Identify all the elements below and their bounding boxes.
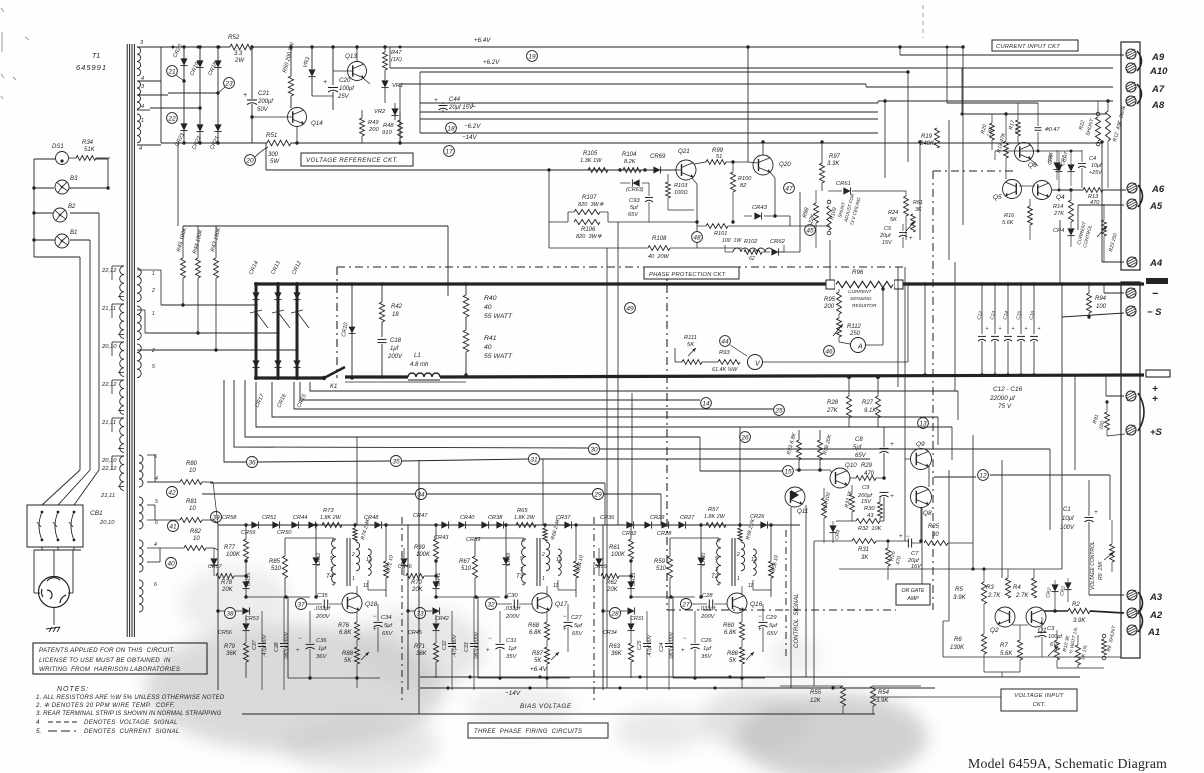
positive bus heavy wire left: [256, 376, 324, 379]
capacitor C18 1uf 200V: [378, 338, 387, 340]
svg-text:R28: R28: [827, 400, 839, 406]
svg-text:Q17: Q17: [555, 601, 568, 608]
svg-text:C5: C5: [884, 226, 892, 232]
svg-text:21,11: 21,11: [101, 420, 116, 426]
svg-text:+: +: [890, 441, 894, 448]
terminal minus: [1126, 288, 1136, 298]
SCR CR14: [252, 292, 259, 299]
svg-text:200V: 200V: [505, 614, 521, 620]
svg-text:R80: R80: [186, 461, 198, 467]
transformer T3 right winding 1: [546, 542, 550, 571]
svg-text:R27: R27: [862, 400, 874, 406]
svg-text:5: 5: [152, 364, 155, 370]
transistor Q8: [911, 487, 932, 508]
wire block T4 bottom: [288, 677, 380, 679]
svg-text:5: 5: [155, 499, 158, 505]
svg-text:21,11: 21,11: [100, 493, 115, 499]
wire plus terminal: [1102, 374, 1121, 377]
svg-text:27: 27: [681, 601, 690, 608]
wire 12 to voltage control: [934, 476, 976, 478]
svg-text:+: +: [1025, 326, 1028, 332]
svg-text:100: 100: [1096, 304, 1107, 310]
capacitor C30 .033uf 200V: [513, 600, 515, 609]
diode CR41 on vertical: [432, 581, 439, 588]
resistor R80 10: [180, 480, 202, 485]
svg-text:LICENSE TO USE MUST BE OBTAINE: LICENSE TO USE MUST BE OBTAINED IN: [39, 657, 171, 664]
resistor R106 820 3W: [574, 220, 600, 225]
svg-text:1. ALL RESISTORS ARE ½W 5% UNL: 1. ALL RESISTORS ARE ½W 5% UNLESS OTHERW…: [36, 694, 225, 701]
svg-text:CR69: CR69: [650, 154, 666, 160]
svg-text:AMP: AMP: [906, 596, 919, 602]
svg-text:36K: 36K: [611, 651, 623, 657]
svg-text:A10: A10: [1149, 66, 1168, 77]
svg-text:65V: 65V: [767, 631, 778, 637]
svg-text:35V: 35V: [506, 654, 517, 660]
svg-text:510: 510: [271, 566, 282, 572]
svg-text:34: 34: [417, 491, 425, 498]
svg-text:(CR63): (CR63): [626, 187, 644, 193]
transformer T2 right winding 1: [741, 542, 745, 571]
svg-text:+: +: [999, 326, 1002, 332]
node circle 28: [610, 608, 621, 619]
transistor Q9: [911, 449, 932, 470]
svg-text:CR49: CR49: [506, 553, 512, 566]
resistor R17 570: [1016, 120, 1021, 136]
wire to A2 terminal heavy: [1090, 611, 1124, 613]
svg-text:100Ω: 100Ω: [674, 190, 688, 196]
transistor Q6: [1015, 143, 1034, 162]
wire Q21 emitter down: [692, 178, 697, 184]
svg-text:15V: 15V: [861, 499, 872, 505]
transformer T2 right winding 2: [753, 549, 756, 575]
wire T1 top tap to rectifier: [137, 46, 161, 48]
svg-text:3.3K: 3.3K: [827, 161, 840, 167]
svg-text:4: 4: [332, 582, 335, 588]
strap arc A3-A2: [1138, 592, 1143, 614]
svg-text:R40: R40: [484, 295, 497, 302]
resistor R82 10: [184, 546, 206, 551]
svg-text:C8: C8: [855, 437, 863, 443]
wire current input verticals: [884, 101, 886, 178]
resistor R100 82: [731, 172, 736, 192]
svg-text:4: 4: [522, 582, 525, 588]
svg-text:510: 510: [656, 566, 667, 572]
transistor Q21: [676, 160, 696, 180]
svg-text:.47μf 80V: .47μf 80V: [647, 634, 653, 657]
svg-text:100K: 100K: [226, 552, 241, 558]
svg-text:R62: R62: [606, 580, 618, 586]
SCR CR17: [252, 360, 259, 367]
gate fan vertical 7: [300, 382, 700, 400]
svg-text:1: 1: [152, 311, 155, 317]
svg-text:10: 10: [193, 536, 200, 542]
svg-text:Q11: Q11: [797, 508, 808, 515]
terminal A2: [1127, 608, 1137, 618]
svg-text:300: 300: [268, 152, 279, 158]
wire bus right verticals: [1059, 220, 1061, 284]
wire Q6 emitter: [1030, 159, 1038, 166]
diode CR21: [214, 124, 221, 131]
wire mid verticals to control: [897, 267, 899, 387]
node 25 circle: [774, 405, 785, 416]
svg-text:82: 82: [740, 183, 747, 189]
vertical feed left rails: [419, 72, 421, 133]
svg-text:3.9K: 3.9K: [1073, 618, 1086, 624]
svg-text:42: 42: [168, 489, 176, 496]
svg-text:R71: R71: [414, 644, 425, 650]
svg-text:15: 15: [784, 468, 792, 475]
svg-text:CR32: CR32: [622, 531, 637, 537]
minus output bar: [1146, 278, 1168, 284]
svg-text:CR44: CR44: [293, 515, 307, 521]
svg-text:65V: 65V: [572, 631, 583, 637]
diode CR46: [400, 558, 407, 565]
svg-text:R70: R70: [411, 580, 423, 586]
wire current input top: [947, 102, 1038, 104]
svg-text:20K: 20K: [221, 587, 234, 593]
rail y103: [420, 102, 878, 104]
svg-text:A7: A7: [1151, 84, 1165, 95]
svg-text:C37: C37: [252, 639, 258, 650]
dashed vertical right: [932, 171, 934, 610]
svg-text:50V: 50V: [257, 107, 269, 113]
svg-text:+: +: [986, 326, 989, 332]
svg-text:R7: R7: [1000, 643, 1008, 649]
capacitor C33 .082uf: [470, 643, 478, 645]
svg-text:R54: R54: [878, 690, 890, 696]
diode CR53: [242, 607, 249, 614]
transformer T3 right winding 2: [558, 549, 561, 575]
svg-text:C31: C31: [506, 638, 517, 644]
wire big box top: [183, 225, 448, 227]
terminal A8: [1126, 96, 1136, 106]
svg-text:CKT.: CKT.: [1033, 702, 1046, 708]
resistor R94 100: [1088, 284, 1090, 293]
node 22 circle: [167, 113, 178, 124]
svg-text:200V: 200V: [700, 614, 716, 620]
rail bias voltage: [242, 713, 875, 715]
svg-text:645991: 645991: [76, 63, 107, 72]
svg-text:36K: 36K: [226, 651, 238, 657]
wire node to cap: [497, 603, 512, 605]
svg-text:22000 μf: 22000 μf: [989, 395, 1016, 402]
svg-text:− C: − C: [466, 102, 476, 109]
resistor R108 40 20W: [648, 246, 670, 251]
rail y119: [420, 118, 878, 120]
svg-text:61.4K ⅛W: 61.4K ⅛W: [712, 367, 738, 373]
svg-text:T2: T2: [711, 573, 719, 580]
wire block box left: [672, 537, 674, 539]
junction dots top rail: [172, 46, 175, 49]
node 45 circle: [805, 225, 816, 236]
svg-text:Q14: Q14: [311, 120, 323, 127]
svg-text:R87: R87: [532, 651, 544, 657]
svg-text:+: +: [899, 534, 903, 540]
svg-text:910: 910: [382, 130, 392, 136]
resistor R81 10: [180, 518, 202, 523]
svg-text:C30: C30: [507, 593, 518, 599]
diode CR31: [627, 607, 634, 614]
svg-text:51: 51: [716, 154, 722, 160]
svg-text:BIAS VOLTAGE: BIAS VOLTAGE: [520, 703, 572, 710]
svg-text:5K: 5K: [687, 342, 695, 348]
svg-text:NOTES:: NOTES:: [57, 686, 89, 693]
svg-text:R60: R60: [723, 623, 735, 629]
rail y87 to A7: [866, 86, 1113, 88]
svg-text:CR51: CR51: [262, 515, 276, 521]
dashed wire into or-gate: [667, 609, 896, 611]
SCR CR16: [274, 360, 281, 367]
svg-text:2: 2: [151, 348, 155, 354]
svg-text:5: 5: [330, 556, 333, 562]
svg-text:1μf: 1μf: [318, 646, 327, 652]
svg-text:18: 18: [447, 125, 455, 132]
node 35 circle: [391, 456, 402, 467]
diode CR1: [1064, 582, 1071, 589]
svg-text:20,10: 20,10: [101, 458, 117, 464]
node 49 circle: [625, 303, 636, 314]
svg-text:4: 4: [139, 146, 142, 152]
svg-text:CR30: CR30: [701, 553, 707, 566]
terminal A4: [1127, 257, 1137, 267]
transformer T1 secondary windings left side: [120, 266, 124, 300]
svg-text:+: +: [1152, 394, 1158, 405]
capacitor C31 1uf: [496, 643, 505, 645]
diode CR43: [458, 521, 465, 528]
wire Q20 emitter: [770, 172, 775, 178]
wire y470: [795, 469, 830, 471]
svg-text:35V: 35V: [701, 654, 712, 660]
wire or gate feeds: [839, 568, 1062, 570]
gate fan vertical 6: [294, 382, 773, 409]
wire cap bank feed: [924, 284, 926, 375]
svg-text:48: 48: [693, 234, 701, 241]
potentiometer R10 3K: [1055, 640, 1060, 660]
svg-text:Q8: Q8: [923, 510, 932, 517]
strap arc A6-A5: [1138, 185, 1143, 207]
capacitor C25 .47uf 80V: [643, 643, 651, 645]
svg-text:10: 10: [189, 506, 196, 512]
terminal A6: [1127, 183, 1137, 193]
capacitor C35 .033uf 200V: [323, 600, 325, 609]
svg-text:36K: 36K: [416, 651, 428, 657]
resistor R101 100 1W: [706, 224, 728, 229]
svg-text:240K: 240K: [919, 141, 935, 147]
svg-text:21,11: 21,11: [101, 306, 116, 312]
svg-text:C20: C20: [339, 77, 351, 84]
capacitor C15: [1020, 284, 1022, 334]
node 21 circle: [167, 66, 178, 77]
svg-text:CR40: CR40: [460, 515, 475, 521]
resistor R2 3.9K: [1068, 608, 1090, 613]
diode CR37: [564, 521, 571, 528]
svg-text:1.3K 1W: 1.3K 1W: [580, 158, 602, 164]
svg-text:20K: 20K: [411, 587, 424, 593]
terminal A1: [1127, 625, 1137, 635]
transformer T4 right winding 2: [368, 549, 371, 575]
wire Q20 collector to rail: [762, 142, 764, 155]
resistor R73 1.8K 2W: [322, 523, 342, 528]
strap arc A9-A10: [1137, 51, 1142, 71]
diode CR9: [829, 525, 836, 532]
svg-text:R61: R61: [913, 200, 923, 206]
capacitor C28 .033uf 200V: [708, 600, 710, 609]
svg-text:CR50: CR50: [277, 530, 292, 536]
circuit breaker CB1 box: [27, 505, 83, 547]
svg-text:R77: R77: [224, 545, 236, 551]
wire voltmeter to right: [763, 361, 908, 363]
svg-text:SENSING: SENSING: [850, 296, 872, 302]
svg-text:CR36: CR36: [600, 515, 615, 521]
wire right of lamps: [96, 158, 108, 160]
svg-text:+6.2V: +6.2V: [483, 59, 500, 66]
diode CR49: [502, 557, 509, 564]
svg-text:C38: C38: [274, 642, 280, 652]
svg-text:1: 1: [737, 576, 740, 582]
wire thin parallel under bus: [345, 381, 466, 383]
diode row CR59: [291, 521, 298, 528]
svg-text:R61: R61: [609, 545, 620, 551]
svg-text:R100: R100: [738, 176, 752, 182]
svg-text:31: 31: [530, 456, 538, 463]
svg-text:R25: R25: [928, 524, 940, 530]
svg-text:20μf: 20μf: [879, 233, 891, 239]
svg-text:R49: R49: [368, 120, 379, 126]
svg-text:R79: R79: [224, 644, 236, 650]
svg-text:A4: A4: [1149, 258, 1163, 269]
svg-text:5.6K: 5.6K: [1000, 651, 1013, 657]
node 34 circle: [416, 489, 427, 500]
svg-text:28: 28: [610, 610, 619, 617]
wire Q18 emitter to resistor: [356, 612, 358, 622]
ground symbol: [53, 608, 55, 626]
SCR stack bar 3: [296, 284, 299, 378]
rail y72: [420, 71, 908, 73]
terminal A7: [1126, 82, 1136, 92]
svg-text:2.7K: 2.7K: [987, 593, 1001, 599]
svg-text:4.8 mh: 4.8 mh: [410, 362, 429, 368]
capacitor C20 100uf 25V: [332, 47, 334, 85]
svg-text:25: 25: [774, 407, 783, 414]
svg-text:Q20: Q20: [779, 161, 791, 168]
svg-text:PHASE PROTECTION CKT: PHASE PROTECTION CKT: [649, 272, 726, 278]
svg-text:−14V: −14V: [462, 134, 477, 141]
svg-text:CR42: CR42: [435, 616, 449, 622]
wire A5 line: [1078, 204, 1124, 206]
svg-text:2. ✲ DENOTES 20 PPM WIRE TEMP.: 2. ✲ DENOTES 20 PPM WIRE TEMP. COFF.: [35, 702, 175, 709]
svg-text:+S: +S: [1150, 427, 1163, 438]
capacitor C24 .082uf: [665, 643, 673, 645]
svg-text:R9 25K: R9 25K: [1098, 561, 1104, 580]
terminal A9: [1126, 49, 1136, 59]
svg-text:VOLTAGE CONTROL: VOLTAGE CONTROL: [1090, 541, 1096, 590]
svg-text:62: 62: [749, 256, 755, 262]
svg-text:29: 29: [593, 491, 602, 498]
transformer T4 left winding: [332, 539, 336, 583]
wire minus terminal: [1102, 283, 1121, 286]
svg-text:C36: C36: [316, 638, 327, 644]
node 36 circle: [247, 457, 258, 468]
svg-text:12: 12: [979, 472, 987, 479]
node circle 38: [225, 608, 236, 619]
diode CR39: [496, 521, 503, 528]
svg-text:5: 5: [520, 556, 523, 562]
svg-text:+: +: [563, 627, 567, 633]
diode CR29: [661, 521, 668, 528]
svg-text:+: +: [909, 236, 913, 242]
svg-text:VOLTAGE INPUT: VOLTAGE INPUT: [1014, 693, 1064, 699]
diode CR56: [242, 623, 249, 630]
transistor Q16: [727, 593, 747, 613]
svg-text:+: +: [434, 97, 438, 104]
svg-text:Q10: Q10: [845, 462, 857, 469]
resistor R57 1.8K 2W: [706, 523, 726, 528]
svg-text:200μf: 200μf: [257, 99, 274, 105]
lamp DS1: [56, 152, 69, 165]
wire top rail y47: [161, 46, 230, 48]
transistor Q14: [288, 108, 307, 127]
svg-text:200: 200: [823, 304, 835, 310]
svg-text:C18: C18: [390, 338, 402, 344]
resistor R18 47K: [1004, 141, 1009, 158]
svg-text:55 WATT: 55 WATT: [484, 313, 513, 320]
svg-text:+: +: [1038, 326, 1041, 332]
svg-text:DS1: DS1: [52, 144, 64, 150]
svg-text:2: 2: [541, 552, 545, 558]
transformer T4 right winding 1: [356, 542, 360, 571]
svg-text:R6: R6: [954, 637, 962, 643]
svg-text:CR58: CR58: [222, 515, 237, 521]
capacitor C14: [1007, 284, 1009, 334]
wire to voltage input box: [873, 696, 1001, 698]
rail y170 to phase protection: [266, 169, 676, 171]
svg-text:5: 5: [715, 556, 718, 562]
svg-text:R14: R14: [1053, 204, 1063, 210]
svg-text:+: +: [1012, 326, 1015, 332]
svg-text:44: 44: [721, 338, 729, 345]
transformer T2 left winding: [717, 539, 721, 583]
node 18 circle: [446, 123, 457, 134]
svg-text:100K: 100K: [416, 552, 431, 558]
svg-text:WRITING FROM HARRISON LABORA: WRITING FROM HARRISON LABORATORIES: [39, 666, 181, 673]
capacitor C36 1uf: [306, 643, 315, 645]
wire T1 tap 4: [137, 80, 161, 82]
circuit breaker poles: [41, 511, 44, 514]
svg-text:B1: B1: [70, 230, 77, 236]
svg-text:B3: B3: [70, 176, 78, 182]
diode row CR58: [251, 521, 258, 528]
svg-text:R73: R73: [323, 508, 334, 514]
node 26 circle: [740, 432, 751, 443]
svg-text:65V: 65V: [855, 453, 867, 459]
svg-text:R55: R55: [810, 690, 822, 696]
inductor L1 4.8mh: [408, 373, 440, 377]
wire current input mid: [995, 150, 1082, 152]
svg-text:3.9K: 3.9K: [953, 594, 967, 601]
svg-text:25V: 25V: [337, 94, 350, 100]
svg-text:VR2: VR2: [374, 109, 386, 115]
svg-text:250: 250: [849, 331, 861, 337]
svg-text:R42: R42: [391, 304, 403, 310]
relay contact K1: [324, 367, 345, 378]
choke winding phase protection: [733, 248, 773, 252]
svg-text:+: +: [486, 648, 490, 654]
svg-text:10μf: 10μf: [1091, 163, 1102, 169]
svg-text:18: 18: [392, 312, 399, 318]
svg-text:1.8K 2W: 1.8K 2W: [704, 514, 726, 520]
capacitor C44 20uf 15V: [439, 105, 448, 107]
junction dots on buses: [254, 282, 258, 286]
